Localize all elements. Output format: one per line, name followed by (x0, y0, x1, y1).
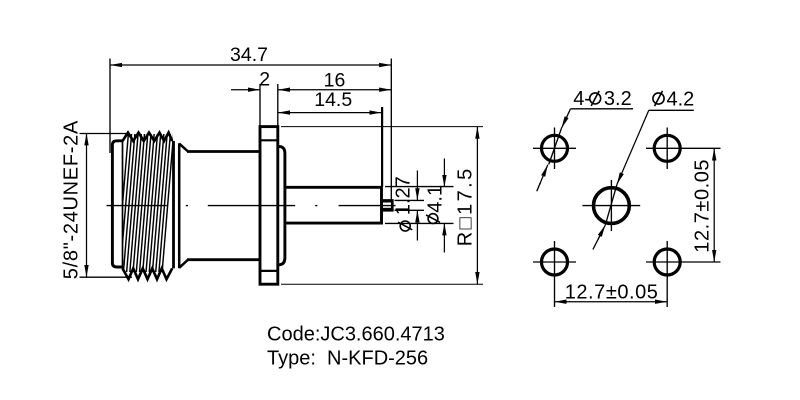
label phi4.2 (653, 91, 664, 106)
dim phi4.1 stub (443, 159, 445, 188)
dim 12.7 bottom (555, 301, 668, 303)
svg-text:3.2: 3.2 (604, 88, 632, 110)
crosshair top-left hole (533, 147, 576, 149)
svg-text:16: 16 (324, 69, 346, 91)
ext line pin top (395, 199, 425, 201)
ext line flange bottom right (281, 283, 483, 285)
leader 4-phi3.2 (562, 109, 571, 128)
ext line stub face (381, 107, 383, 187)
chamfer cone top (179, 144, 188, 152)
dim phi1.27 pin (416, 171, 418, 201)
crosshair bottom-left hole (533, 261, 576, 263)
ext line thread bottom (80, 276, 133, 278)
leader phi4.2 (617, 110, 649, 184)
mounting hole bottom-left (542, 249, 568, 275)
ext line stub top (385, 186, 454, 188)
flange (side view) (260, 127, 278, 285)
chamfer cone bottom (179, 260, 188, 268)
mounting hole top-left (542, 135, 568, 161)
crosshair bottom-right hole (646, 261, 721, 263)
chamfer ring edge (178, 143, 181, 268)
flange corner radius line top (260, 139, 278, 141)
ext line flange left (259, 84, 261, 127)
ext line flange top right (281, 126, 483, 128)
svg-text:14.5: 14.5 (314, 89, 352, 111)
insulator stub (285, 187, 382, 223)
collar/thread boundary (122, 141, 124, 268)
dim R square 17.5 flange (476, 127, 478, 285)
connector body left collar (112, 141, 122, 267)
body top edge (187, 150, 260, 153)
svg-text:4.1: 4.1 (425, 185, 447, 213)
dim 16 (278, 89, 392, 91)
ext line pin tip (390, 59, 392, 200)
thread crest zigzag bottom (123, 268, 173, 279)
center pin (382, 200, 393, 210)
pin slot lines (382, 201, 391, 203)
ext line flange right (277, 84, 279, 127)
ext line pin bottom (395, 209, 425, 211)
dim 34.7 (110, 64, 391, 66)
ext line thread top (80, 133, 128, 135)
boss behind flange (279, 146, 285, 264)
crosshair center hole (582, 205, 640, 207)
mounting hole bottom-right (654, 249, 680, 275)
svg-text:1.27: 1.27 (393, 176, 415, 215)
svg-text:34.7: 34.7 (230, 44, 268, 66)
svg-text:4-: 4- (573, 88, 591, 110)
svg-text:Code:JC3.660.4713: Code:JC3.660.4713 (267, 324, 445, 346)
mounting hole top-right (654, 135, 680, 161)
svg-text:Type: N-KFD-256: Type: N-KFD-256 (267, 348, 428, 370)
svg-text:12.7±0.05: 12.7±0.05 (565, 281, 659, 303)
svg-text:R□17.5: R□17.5 (455, 166, 477, 246)
flange corner radius line bottom (260, 270, 278, 272)
thread hatching (116, 134, 173, 279)
svg-text:4.2: 4.2 (667, 88, 695, 110)
svg-text:2: 2 (259, 68, 270, 90)
svg-text:5/8"-24UNEF-2A: 5/8"-24UNEF-2A (61, 120, 83, 279)
thread crest zigzag top (123, 133, 173, 141)
center hole (594, 188, 630, 224)
ext line 34.7 left (109, 59, 111, 154)
dim 14.5 (278, 112, 382, 114)
centerline left view (107, 205, 167, 207)
svg-text:12.7±0.05: 12.7±0.05 (692, 159, 714, 253)
crosshair top-right hole (646, 147, 721, 149)
ext line stub bottom (385, 222, 454, 224)
body bottom edge (187, 258, 260, 261)
dim 5/8"-24UNEF-2A thread (86, 133, 88, 277)
thread right face (172, 141, 175, 268)
dim 12.7 right (713, 148, 715, 262)
